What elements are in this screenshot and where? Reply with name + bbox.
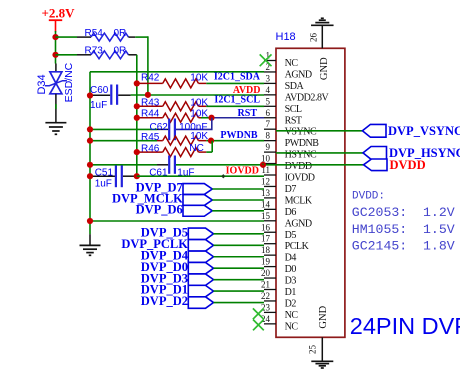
junction R44 out RST (208, 115, 214, 121)
svg-text:I2C1_SCL: I2C1_SCL (214, 94, 260, 105)
label I2C1_SDA (214, 71, 261, 82)
svg-text:17: 17 (261, 234, 271, 244)
port DVP_VSYNC (362, 124, 460, 138)
svg-text:GND: GND (318, 305, 329, 328)
svg-text:21: 21 (261, 280, 270, 290)
svg-text:0R: 0R (114, 46, 127, 57)
svg-text:NC: NC (285, 58, 299, 69)
note DVDD voltages (352, 190, 455, 253)
svg-text:14: 14 (261, 199, 271, 209)
port DVDD (364, 158, 426, 172)
svg-text:1uF: 1uF (95, 178, 112, 189)
pin 25 gnd symbol (308, 337, 334, 368)
wire PWDNB to pin8 (211, 140, 264, 142)
label AVDD (233, 85, 261, 96)
svg-text:D0: D0 (285, 264, 297, 275)
port DVP_D1 (141, 283, 264, 297)
wire RST to pin6 (212, 117, 265, 119)
svg-text:SDA: SDA (285, 81, 305, 92)
junction R45 rail A (87, 138, 93, 144)
no-connect X pin1 (260, 54, 272, 66)
svg-text:PWDNB: PWDNB (285, 138, 320, 149)
IC pin 26 GND name (319, 57, 330, 80)
wire AGND pin2 to rail A (90, 72, 264, 246)
junction C51 rail A (87, 173, 93, 179)
svg-text:IOVDD: IOVDD (226, 165, 259, 176)
svg-text:MCLK: MCLK (285, 195, 313, 206)
svg-text:AVDD2.8V: AVDD2.8V (285, 92, 330, 103)
svg-text:10K: 10K (190, 108, 208, 119)
svg-text:3: 3 (266, 73, 271, 83)
port DVP_D7 (136, 181, 264, 195)
port DVP_D0 (141, 260, 264, 274)
svg-text:NC: NC (285, 310, 299, 321)
svg-text:19: 19 (261, 257, 271, 267)
port DVP_HSYNC (363, 146, 460, 160)
svg-text:25: 25 (308, 345, 318, 355)
capacitor C61 1uF (90, 156, 195, 179)
IC H18 body (276, 48, 345, 337)
junction marker IOVDD (221, 174, 225, 178)
junction R42 rail B (134, 80, 140, 86)
resistor R42 10K (137, 72, 264, 88)
svg-text:C51: C51 (95, 168, 114, 179)
capacitor C62 100nF (90, 118, 212, 140)
label PWDNB (220, 130, 258, 141)
svg-text:NC: NC (285, 321, 299, 332)
junction C62 rail A (87, 126, 93, 132)
label H18 (276, 31, 296, 43)
port DVP_MCLK (112, 192, 264, 206)
IC pin numbers (261, 51, 271, 324)
junction DVDD pin10 (260, 162, 266, 168)
junction PWDNB node (208, 138, 214, 144)
port DVP_D2 (141, 294, 264, 308)
IC pin stubs 1-24 (264, 61, 276, 324)
resistor R45 10K (90, 131, 211, 145)
svg-text:15: 15 (261, 211, 271, 221)
svg-text:GC2145: 1.8V: GC2145: 1.8V (352, 239, 455, 254)
svg-text:8: 8 (266, 131, 271, 141)
power symbol +2.8V (42, 5, 76, 31)
svg-text:26: 26 (309, 33, 319, 43)
svg-text:R45: R45 (141, 132, 160, 143)
junction C61 rail A (87, 162, 93, 168)
svg-text:DVDD: DVDD (285, 161, 312, 172)
junction AGND pin15 (87, 218, 93, 224)
svg-text:4: 4 (266, 85, 271, 95)
svg-text:AGND: AGND (285, 218, 312, 229)
port DVP_D6 (136, 202, 264, 216)
port DVP_D5 (141, 225, 264, 239)
wire VSYNC (276, 130, 362, 132)
svg-text:DVP_D2: DVP_D2 (141, 294, 188, 308)
ground D34 (45, 123, 66, 135)
label I2C1_SCL (214, 94, 260, 105)
svg-text:SCL: SCL (285, 104, 302, 115)
wire AGND to pin15 (90, 220, 264, 222)
svg-text:NC: NC (189, 143, 203, 154)
junction power rail to R73 (52, 52, 58, 58)
wire rail B (136, 55, 138, 176)
label IOVDD (226, 165, 259, 176)
svg-text:5: 5 (266, 96, 271, 106)
svg-text:R44: R44 (141, 108, 160, 119)
port DVP_PCLK (121, 237, 264, 251)
svg-text:22: 22 (261, 291, 270, 301)
svg-text:7: 7 (266, 119, 271, 129)
svg-text:PCLK: PCLK (285, 241, 310, 252)
svg-text:23: 23 (261, 302, 271, 312)
svg-text:VSYNC: VSYNC (285, 127, 317, 138)
wire +2.8V rail (55, 31, 57, 64)
svg-text:DVDD:: DVDD: (352, 190, 385, 202)
svg-text:DVP_VSYNC: DVP_VSYNC (388, 124, 460, 138)
IC pin 25 GND name (318, 305, 329, 328)
diode D34 ESD/NC (36, 62, 75, 122)
svg-text:PWDNB: PWDNB (220, 130, 258, 141)
svg-text:I2C1_SDA: I2C1_SDA (214, 71, 261, 82)
svg-text:D2: D2 (285, 298, 297, 309)
wire AVDD to pin4 (131, 94, 264, 96)
no-connect X pin24 (253, 320, 264, 331)
svg-text:20: 20 (261, 268, 271, 278)
resistor R44 10K (137, 108, 212, 122)
capacitor C60 1uF (90, 85, 131, 111)
junction C60 rail A (87, 92, 93, 98)
svg-text:D7: D7 (285, 184, 297, 195)
svg-text:D3: D3 (285, 276, 297, 287)
junction R43 rail B (134, 103, 140, 109)
svg-text:R43: R43 (141, 97, 160, 108)
svg-text:1uF: 1uF (90, 100, 107, 111)
wire IOVDD to pin11 (137, 175, 264, 177)
resistor R46 NC (137, 141, 212, 157)
junction rail C AVDD (145, 92, 151, 98)
svg-text:H18: H18 (276, 31, 296, 43)
IC pin names (285, 58, 330, 332)
resistor R54 0R (56, 28, 136, 41)
port DVP_D4 (141, 248, 264, 262)
svg-text:+2.8V: +2.8V (42, 5, 76, 20)
svg-text:DVDD: DVDD (390, 158, 426, 172)
svg-text:D4: D4 (285, 253, 297, 264)
svg-text:AGND: AGND (285, 69, 312, 80)
svg-text:R46: R46 (141, 144, 160, 155)
svg-text:DVP_D6: DVP_D6 (136, 202, 183, 216)
svg-text:IOVDD: IOVDD (285, 173, 315, 184)
resistor R73 0R (56, 46, 137, 59)
svg-text:18: 18 (261, 245, 271, 255)
svg-text:D34: D34 (36, 74, 48, 94)
capacitor C51 1uF (90, 165, 137, 189)
svg-text:0R: 0R (114, 28, 127, 39)
svg-text:10K: 10K (190, 72, 208, 83)
svg-text:D6: D6 (285, 207, 297, 218)
svg-text:R54: R54 (85, 28, 104, 39)
svg-text:R42: R42 (141, 72, 160, 83)
svg-text:ESD/NC: ESD/NC (63, 62, 75, 102)
wire DVDD (176, 164, 364, 166)
resistor R43 10K (137, 97, 264, 110)
junction R46 rail B (134, 149, 140, 155)
junction R44 rail B (134, 115, 140, 121)
junction power rail to R54 (52, 34, 58, 40)
svg-text:9: 9 (266, 142, 271, 152)
svg-text:D1: D1 (285, 287, 297, 298)
svg-text:10K: 10K (190, 97, 208, 108)
ground rail A (80, 245, 101, 255)
wire R54 out (135, 36, 148, 95)
wire HSYNC (276, 152, 363, 154)
junction C51 rail B (134, 173, 140, 179)
no-connect X pin23 (253, 308, 264, 319)
svg-text:16: 16 (261, 222, 271, 232)
svg-text:HM1055: 1.5V: HM1055: 1.5V (352, 222, 455, 237)
svg-text:24PIN DVP: 24PIN DVP (350, 313, 460, 339)
svg-text:12: 12 (261, 176, 270, 186)
svg-text:R73: R73 (85, 46, 104, 57)
label RST (238, 108, 258, 119)
svg-text:RST: RST (238, 108, 258, 119)
svg-text:GC2053: 1.2V: GC2053: 1.2V (352, 205, 455, 220)
title 24PIN DVP (350, 313, 460, 339)
svg-text:HSYNC: HSYNC (285, 150, 317, 161)
svg-text:10K: 10K (190, 131, 208, 142)
pin 26 gnd symbol (309, 18, 334, 48)
svg-text:GND: GND (319, 57, 330, 80)
svg-text:D5: D5 (285, 230, 297, 241)
port DVP_D3 (141, 271, 264, 285)
svg-text:RST: RST (285, 115, 302, 126)
svg-text:6: 6 (266, 108, 271, 118)
